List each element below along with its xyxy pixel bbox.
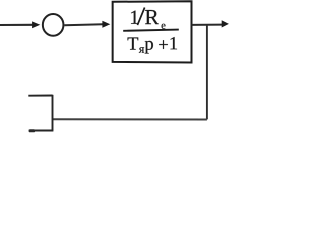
subscript я of T bbox=[139, 47, 144, 53]
subscript e of R bbox=[162, 24, 166, 29]
wire: feedback line (bottom) bbox=[53, 118, 207, 120]
fraction bar bbox=[123, 30, 179, 31]
wire: summing junction to block bbox=[64, 23, 103, 26]
wire: block output line bbox=[192, 24, 223, 26]
wire: vertical branch down from output line bbox=[206, 25, 208, 120]
numerator R bbox=[145, 10, 159, 24]
value label denominator: Tя p + 1 bbox=[128, 37, 178, 53]
arrowhead: arrow into block bbox=[102, 21, 110, 28]
ink blob at bottom edge left end bbox=[29, 129, 36, 132]
back-EMF block: right edge bbox=[52, 95, 54, 131]
numerator fraction slash bbox=[137, 8, 144, 26]
arrowhead: input arrow into summing junction bbox=[32, 21, 40, 28]
denominator T bbox=[128, 37, 139, 49]
wire: input line into summing junction bbox=[0, 24, 32, 26]
denominator digit 1 bbox=[171, 37, 178, 49]
arrowhead: output arrow bbox=[222, 20, 229, 27]
summing junction (circle) bbox=[43, 14, 64, 36]
numerator digit 1 bbox=[131, 11, 138, 24]
block U1: armature transfer function 1/Re / (Tя p + 1) bbox=[113, 1, 192, 62]
back-EMF block (partially cropped at left): top edge bbox=[28, 95, 52, 97]
denominator p (Laplace operator) bbox=[145, 41, 153, 54]
back-EMF block: bottom edge bbox=[29, 129, 54, 131]
denominator plus sign bbox=[159, 40, 168, 49]
value label numerator: 1/Re bbox=[131, 8, 165, 29]
